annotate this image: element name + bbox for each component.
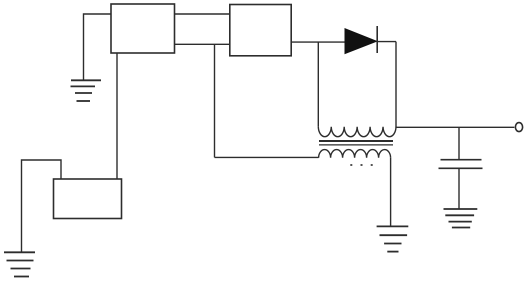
ground GND1 (under B1 left pin) bbox=[71, 80, 102, 101]
transformer T1 secondary winding bbox=[319, 150, 391, 158]
wire B1 left pin to ground stub bbox=[84, 14, 112, 80]
wire B2 output to diode anode bbox=[291, 41, 345, 43]
wire secondary right end down to ground bbox=[390, 158, 392, 226]
transformer T1 core lines bbox=[319, 141, 393, 145]
wire down to capacitor C1 bbox=[458, 127, 460, 159]
transformer T1 primary winding bbox=[318, 127, 396, 137]
wire diode cathode to corner bbox=[377, 41, 396, 43]
wire junction drop to secondary (vertical at x=214.5) bbox=[214, 44, 216, 157]
diode D1 cathode bar bbox=[376, 26, 378, 53]
wire output node to terminal bbox=[396, 126, 514, 128]
wire to transformer secondary left end bbox=[215, 156, 319, 158]
ground GND3 (under transformer secondary) bbox=[377, 226, 409, 251]
wire B3 top pin to left bbox=[22, 160, 62, 252]
diode D1 (triangle) bbox=[345, 29, 377, 54]
secondary winding continuation dots bbox=[350, 164, 372, 166]
output terminal circle bbox=[515, 123, 522, 132]
ground GND4 (under capacitor) bbox=[444, 209, 478, 228]
wire junction drop to primary left end (vertical at x=318.3) bbox=[317, 42, 319, 127]
ground GND2 (bottom-left) bbox=[4, 252, 35, 276]
block B2 (top-middle rectangle) bbox=[230, 5, 291, 56]
wire corner down to primary right end bbox=[395, 42, 397, 128]
wire B1 to B2 (top) bbox=[175, 13, 230, 15]
block B3 (bottom-left rectangle) bbox=[54, 179, 122, 219]
block B1 (top-left rectangle) bbox=[111, 4, 175, 53]
wire B1 bottom pin down to B3 bbox=[116, 53, 118, 179]
wire capacitor to ground bbox=[458, 168, 460, 209]
wire B1 to B2 (bottom) bbox=[175, 43, 230, 45]
capacitor C1 plates bbox=[439, 160, 483, 169]
